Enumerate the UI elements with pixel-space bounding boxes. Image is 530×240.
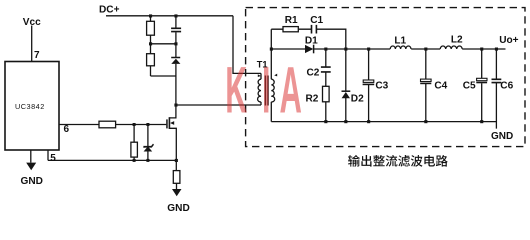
branch D2 xyxy=(345,49,347,122)
wire gate R pulldown stems xyxy=(133,125,135,161)
wire clamp cap branch xyxy=(175,16,177,57)
wire top rail secondary to D1 xyxy=(271,48,305,50)
capacitor C5 polarized xyxy=(477,78,487,80)
svg-text:C2: C2 xyxy=(307,67,320,78)
resistor gate pulldown xyxy=(131,142,138,157)
transformer T1 secondary winding xyxy=(271,79,274,102)
ground arrow sense xyxy=(172,189,182,196)
branch C5 xyxy=(481,49,483,122)
wire top rail L1 to L2 xyxy=(411,48,440,50)
dashed box output section xyxy=(246,8,525,147)
wire pin5 stub xyxy=(47,150,49,160)
svg-text:7: 7 xyxy=(34,50,40,61)
svg-text:C1: C1 xyxy=(310,15,323,26)
caption 输出整流滤波电路 xyxy=(348,155,448,167)
wire clamp bottom xyxy=(151,75,176,77)
capacitor C1 xyxy=(312,25,317,34)
resistor gate series R xyxy=(99,121,116,128)
wire drain node horizontal xyxy=(176,104,261,106)
resistor clamp R upper xyxy=(147,21,155,35)
wire top rail L2 to Uo xyxy=(462,48,505,50)
svg-text:D2: D2 xyxy=(351,93,364,104)
svg-text:UC3842: UC3842 xyxy=(15,102,45,111)
junction dots xyxy=(149,14,152,17)
capacitor C3 polarized xyxy=(363,80,374,82)
resistor R1 xyxy=(283,27,298,32)
wire IC pin7 stem xyxy=(31,26,33,62)
branch C2 R2 xyxy=(325,49,327,122)
transformer primary polarity dot xyxy=(258,74,261,77)
resistor sense R xyxy=(173,171,180,184)
svg-text:R2: R2 xyxy=(306,93,319,104)
diode clamp D cathode bar xyxy=(171,57,180,59)
svg-text:GND: GND xyxy=(21,176,43,187)
svg-text:A: A xyxy=(280,52,302,126)
wire clamp left branch xyxy=(150,16,152,76)
inductor L2 xyxy=(440,46,462,49)
branch C4 xyxy=(425,49,427,122)
svg-text:C3: C3 xyxy=(375,80,388,91)
IC U1 box xyxy=(5,62,59,151)
svg-text:L1: L1 xyxy=(394,35,406,46)
diode D2 cathode bar xyxy=(342,90,351,92)
mosfet Q1 source lead xyxy=(170,128,177,170)
diode D2 triangle xyxy=(342,92,350,98)
zener gate stems xyxy=(147,125,149,161)
mosfet Q1 gate wire xyxy=(116,124,167,126)
wire clamp cross xyxy=(151,43,176,45)
capacitor C6 xyxy=(492,79,502,82)
wire sense R to gnd arrow xyxy=(176,183,178,189)
svg-text:K: K xyxy=(225,53,247,126)
svg-text:I: I xyxy=(262,53,270,126)
svg-text:Vcc: Vcc xyxy=(23,17,41,28)
ground arrow IC xyxy=(26,163,36,171)
wire bottom rail xyxy=(271,121,496,123)
svg-text:C4: C4 xyxy=(434,81,447,92)
wire IC gnd stem xyxy=(30,150,32,163)
svg-text:6: 6 xyxy=(64,124,70,135)
wire snubber top branch xyxy=(271,29,346,49)
zener gate protection xyxy=(144,146,153,151)
svg-text:C5: C5 xyxy=(463,81,476,92)
svg-text:R1: R1 xyxy=(285,15,298,26)
svg-text:DC+: DC+ xyxy=(99,4,120,15)
svg-text:5: 5 xyxy=(50,153,56,164)
transformer T1 secondary leads xyxy=(270,29,272,121)
svg-text:GND: GND xyxy=(167,203,189,214)
watermark KIA xyxy=(225,52,302,126)
resistor R2 xyxy=(323,86,330,102)
wire DC+ down to primary xyxy=(233,16,261,74)
inductor L1 xyxy=(390,46,411,49)
branch C6 xyxy=(495,49,497,129)
wire top rail D1 to L1 xyxy=(314,48,391,50)
capacitor C4 polarized xyxy=(421,79,432,81)
mosfet Q1 body xyxy=(166,119,168,128)
wire clamp diode to drain node xyxy=(175,64,177,105)
wire pin6 xyxy=(59,124,99,126)
wire DC+ rail xyxy=(106,15,233,17)
diode D1 triangle xyxy=(305,45,313,53)
capacitor C2 xyxy=(321,67,331,72)
resistor clamp R lower xyxy=(147,54,155,66)
wire drain drop xyxy=(170,105,176,118)
branch C3 xyxy=(368,49,370,122)
transformer T1 primary winding xyxy=(258,79,261,102)
capacitor clamp C xyxy=(171,28,181,31)
svg-text:Uo+: Uo+ xyxy=(499,35,518,46)
svg-text:D1: D1 xyxy=(305,35,318,46)
transformer secondary polarity dot xyxy=(274,74,277,77)
svg-text:GND: GND xyxy=(491,131,513,142)
svg-text:L2: L2 xyxy=(451,35,463,46)
diode D1 cathode bar xyxy=(313,45,315,54)
diode clamp D triangle xyxy=(171,59,180,64)
transformer T1 core bars xyxy=(265,76,268,106)
wire pin5 line xyxy=(48,159,176,161)
transformer T1 primary lead xyxy=(260,73,262,105)
svg-text:C6: C6 xyxy=(500,81,513,92)
